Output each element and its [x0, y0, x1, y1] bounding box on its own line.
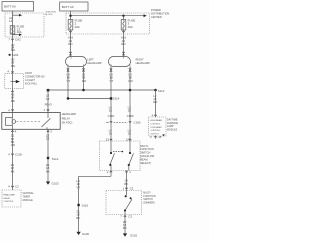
svg-text:C190: C190 — [134, 120, 141, 124]
svg-text:RD: RD — [68, 42, 72, 46]
svg-text:SELECT): SELECT) — [140, 161, 151, 165]
svg-text:40A: 40A — [75, 25, 80, 29]
svg-text:HEADLAMP: HEADLAMP — [62, 112, 77, 116]
svg-text:(IN PDC): (IN PDC) — [62, 121, 73, 125]
svg-text:VT: VT — [76, 185, 80, 189]
svg-text:G103: G103 — [52, 181, 59, 185]
svg-text:C3: C3 — [128, 214, 132, 218]
svg-text:BK: BK — [124, 182, 128, 186]
svg-text:RD: RD — [11, 99, 15, 103]
svg-text:C110: C110 — [108, 114, 115, 118]
svg-text:RIGHT: RIGHT — [136, 58, 144, 62]
svg-text:BATT A0: BATT A0 — [62, 5, 74, 9]
svg-text:HEADLAMP: HEADLAMP — [87, 61, 102, 65]
svg-text:40A: 40A — [128, 25, 133, 29]
svg-text:FUNCTION: FUNCTION — [140, 147, 154, 151]
svg-text:RD: RD — [11, 48, 15, 52]
svg-text:BATT A0: BATT A0 — [4, 5, 16, 9]
svg-text:MODULE: MODULE — [167, 129, 178, 132]
svg-text:18: 18 — [128, 132, 132, 136]
svg-text:S114: S114 — [113, 96, 120, 100]
svg-text:RD: RD — [11, 64, 15, 68]
svg-text:LEFT: LEFT — [87, 58, 94, 62]
svg-text:RELAY: RELAY — [62, 116, 71, 120]
svg-text:LOW BEAM: LOW BEAM — [150, 126, 161, 129]
svg-text:DISTRIBUTION: DISTRIBUTION — [151, 11, 169, 15]
svg-text:C2: C2 — [15, 185, 19, 189]
svg-text:BK: BK — [123, 226, 127, 230]
svg-text:BK: BK — [76, 216, 80, 220]
svg-text:MODULE: MODULE — [23, 199, 34, 202]
svg-text:RELAY: RELAY — [3, 197, 10, 200]
svg-text:POWER: POWER — [151, 8, 161, 12]
svg-text:VT: VT — [67, 79, 71, 83]
svg-text:18: 18 — [46, 97, 50, 101]
svg-text:RD: RD — [153, 100, 157, 104]
svg-text:RD: RD — [121, 42, 125, 46]
svg-text:CONTROL: CONTROL — [3, 201, 14, 203]
svg-text:RD: RD — [129, 79, 133, 83]
svg-text:S113: S113 — [158, 89, 165, 93]
svg-text:HIGH BEAM: HIGH BEAM — [150, 119, 162, 122]
svg-text:OR: OR — [11, 143, 15, 147]
svg-text:VT: VT — [110, 79, 114, 83]
svg-text:BLOCK: BLOCK — [45, 14, 53, 16]
svg-text:G202: G202 — [130, 233, 137, 237]
svg-text:(DIMMER): (DIMMER) — [143, 202, 154, 205]
svg-text:SWITCH: SWITCH — [140, 151, 150, 155]
svg-text:CONTROL: CONTROL — [150, 130, 161, 132]
svg-text:18: 18 — [158, 135, 162, 139]
svg-text:CONTROL: CONTROL — [150, 123, 161, 125]
svg-text:18: 18 — [46, 137, 50, 141]
svg-text:HEADLAMP: HEADLAMP — [3, 194, 15, 197]
svg-text:HEADLAMP: HEADLAMP — [136, 61, 151, 65]
svg-text:14: 14 — [9, 19, 13, 23]
svg-text:10A: 10A — [17, 30, 22, 34]
svg-text:C180: C180 — [127, 114, 134, 118]
svg-text:BK: BK — [46, 169, 50, 173]
svg-text:18: 18 — [109, 132, 113, 136]
svg-text:18: 18 — [128, 109, 132, 113]
svg-text:CENTER: CENTER — [151, 15, 162, 19]
svg-text:MULTI-: MULTI- — [140, 144, 149, 148]
svg-text:S112: S112 — [52, 157, 59, 161]
svg-text:12: 12 — [126, 138, 130, 142]
svg-text:S104: S104 — [12, 53, 19, 57]
svg-text:(HIGH/LOW: (HIGH/LOW — [140, 154, 155, 158]
svg-text:G100: G100 — [82, 232, 89, 236]
svg-text:18: 18 — [109, 109, 113, 113]
svg-text:13: 13 — [106, 138, 110, 142]
svg-text:C3: C3 — [130, 187, 134, 191]
svg-text:KICK PNL): KICK PNL) — [25, 82, 37, 85]
svg-text:S116: S116 — [82, 203, 89, 207]
svg-text:C100: C100 — [15, 152, 22, 156]
svg-text:RD: RD — [82, 79, 86, 83]
svg-text:BK: BK — [11, 169, 15, 173]
svg-text:RD/O: RD/O — [45, 102, 53, 106]
svg-text:BEAM: BEAM — [140, 157, 147, 161]
svg-text:CA2: CA2 — [15, 37, 21, 41]
